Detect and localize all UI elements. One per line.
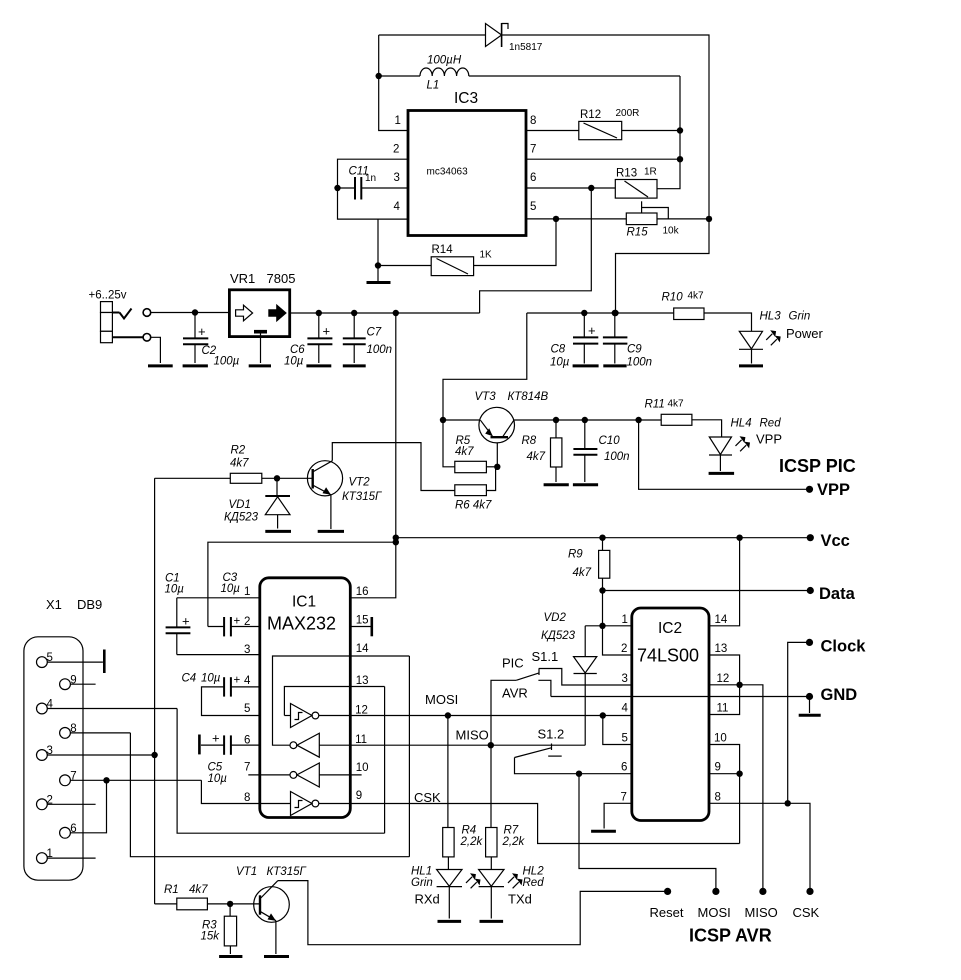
svg-text:8: 8 — [530, 115, 536, 127]
pin numbers IC2 left — [621, 614, 629, 804]
svg-text:4k7: 4k7 — [688, 291, 705, 302]
capacitor C6 10u — [284, 313, 332, 368]
svg-text:HL4: HL4 — [731, 418, 752, 430]
svg-text:+: + — [198, 324, 206, 339]
svg-text:4k7: 4k7 — [189, 884, 208, 896]
svg-text:10µ: 10µ — [284, 356, 304, 368]
node VD1 top — [274, 475, 280, 481]
label ICSP AVR — [689, 926, 772, 946]
svg-text:7805: 7805 — [267, 271, 296, 286]
wire Data line — [603, 590, 811, 592]
svg-text:CSK: CSK — [414, 790, 441, 805]
svg-text:+: + — [182, 614, 190, 629]
wire IC3 pin4 ground vertical — [377, 219, 379, 281]
svg-text:14: 14 — [715, 614, 728, 626]
resistor R8 4k7 — [522, 420, 562, 482]
svg-text:C9: C9 — [627, 344, 642, 356]
DB9 pin 7 — [60, 770, 202, 785]
connector X1 DB9 shell — [24, 597, 102, 880]
ground IC2 pin7 — [591, 830, 616, 833]
svg-text:ICSP AVR: ICSP AVR — [689, 926, 772, 946]
svg-text:C4: C4 — [182, 673, 197, 685]
wire R2 left vertical — [154, 478, 156, 904]
node Vcc vertical upper — [393, 535, 399, 541]
svg-text:16: 16 — [356, 586, 369, 598]
svg-text:R9: R9 — [568, 549, 583, 561]
node R8 top — [553, 417, 559, 423]
ground terminal GND — [799, 686, 858, 715]
wire R15 right to vertical — [657, 218, 709, 220]
node IC2 pin1 junction — [599, 623, 605, 629]
svg-text:2: 2 — [621, 643, 627, 655]
node R12 right — [677, 127, 683, 133]
node C6 top — [316, 310, 322, 316]
svg-text:C10: C10 — [599, 435, 621, 447]
svg-text:1K: 1K — [480, 250, 493, 261]
svg-text:VD2: VD2 — [544, 612, 567, 624]
svg-text:R7: R7 — [504, 825, 519, 837]
svg-text:11: 11 — [355, 734, 367, 746]
svg-text:R1: R1 — [164, 884, 179, 896]
svg-text:3: 3 — [622, 673, 628, 685]
svg-text:10: 10 — [714, 733, 727, 745]
switch S1.1 — [491, 649, 632, 745]
wire rail to C8 C9 R10 — [527, 312, 674, 314]
ground HL3 — [739, 364, 763, 367]
wire MOSI line pin12 to IC2 pin4 — [319, 715, 632, 717]
wire IC3 pin8 to R12 — [526, 130, 579, 132]
svg-text:1n: 1n — [365, 173, 376, 184]
svg-text:C6: C6 — [290, 344, 305, 356]
wire pin5 down to R14 — [474, 219, 556, 266]
ground VD1 — [265, 530, 291, 533]
resistor R6 4k7 — [455, 467, 496, 512]
svg-text:+: + — [234, 675, 241, 687]
ground R8 — [544, 483, 569, 486]
resistor R5 4k7 — [443, 420, 497, 473]
wire VT2 emitter to ground — [330, 495, 332, 529]
svg-text:10k: 10k — [663, 226, 680, 237]
svg-text:S1.2: S1.2 — [538, 727, 565, 742]
diode VD2 KD523 — [541, 612, 597, 745]
svg-text:10µ: 10µ — [221, 583, 241, 595]
wire R12 to right vertical — [622, 130, 680, 132]
svg-text:9: 9 — [715, 762, 721, 774]
wire VT1 collector to Reset — [278, 881, 668, 945]
DB9 pin 8 — [60, 723, 131, 738]
wire AVR to GND line — [551, 696, 810, 698]
resistor R3 15k — [201, 904, 237, 954]
svg-text:4k7: 4k7 — [455, 446, 474, 458]
svg-text:9: 9 — [356, 790, 362, 802]
resistor R12 200R — [579, 108, 640, 140]
DB9 pin 1 — [37, 848, 96, 863]
svg-text:R10: R10 — [662, 292, 684, 304]
node pin6 feedback junction — [588, 185, 594, 191]
diode VD1 KD523 — [224, 478, 290, 528]
resistor R13 1R — [615, 167, 657, 199]
label terminal Vcc — [821, 532, 850, 550]
node IC2 pin12 junction — [736, 682, 742, 688]
svg-text:4: 4 — [394, 201, 401, 213]
svg-text:CSK: CSK — [793, 905, 820, 920]
svg-text:11: 11 — [717, 703, 729, 715]
wire 5V rail right segment — [443, 313, 527, 420]
svg-text:R12: R12 — [580, 109, 601, 121]
wire C3 bracket to Vcc node — [208, 542, 396, 626]
node R9 bottom Data — [599, 587, 605, 593]
svg-text:14: 14 — [356, 643, 369, 655]
wire R9 to IC2 pin1 pin2 — [603, 591, 632, 656]
wire IC3 pin7 to right vertical — [526, 158, 680, 160]
svg-text:R6 4k7: R6 4k7 — [455, 500, 492, 512]
pin numbers IC2 right — [714, 614, 729, 804]
svg-text:13: 13 — [715, 643, 728, 655]
svg-text:1: 1 — [244, 586, 250, 598]
DB9 pin 9 — [60, 674, 96, 689]
svg-text:MOSI: MOSI — [698, 905, 731, 920]
wire VT3 collector line — [514, 419, 661, 421]
svg-text:MAX232: MAX232 — [267, 614, 336, 634]
node IC2 pin6 junction — [576, 771, 582, 777]
svg-text:13: 13 — [356, 675, 369, 687]
svg-text:ICSP PIC: ICSP PIC — [779, 456, 856, 476]
capacitor C8 10u — [550, 313, 598, 369]
capacitor C11 1n — [338, 166, 409, 200]
svg-text:2: 2 — [393, 144, 399, 156]
ground C2 — [183, 364, 208, 367]
resistor R7 2,2k — [486, 745, 526, 869]
wire IC2 pin10 tie to pin9 — [709, 745, 740, 774]
svg-text:C5: C5 — [208, 762, 223, 774]
svg-text:R15: R15 — [627, 227, 649, 239]
resistor R9 4k7 — [568, 538, 610, 591]
trimmer R15 10k — [626, 201, 679, 238]
gate U1C inverter 10-7 — [248, 763, 361, 787]
svg-text:1R: 1R — [644, 167, 657, 178]
svg-text:12: 12 — [717, 673, 730, 685]
node MOSI riser R4 — [445, 712, 451, 718]
svg-text:Red: Red — [760, 418, 782, 430]
svg-text:VR1: VR1 — [230, 271, 255, 286]
label terminal VPP — [817, 481, 850, 499]
svg-text:IC2: IC2 — [658, 620, 682, 637]
svg-text:AVR: AVR — [502, 686, 528, 701]
capacitor C3 10u — [208, 572, 260, 637]
node R9 top — [599, 535, 605, 541]
svg-text:+: + — [234, 616, 241, 628]
svg-text:6: 6 — [530, 172, 536, 184]
svg-text:HL2: HL2 — [523, 866, 545, 878]
svg-text:6: 6 — [621, 762, 627, 774]
wire IC3 pin6 to R13 — [526, 187, 615, 189]
label terminal Clock — [821, 638, 867, 656]
node terminal Reset — [664, 888, 671, 895]
ground VR1 — [249, 364, 271, 367]
wire pin13 riser — [384, 687, 386, 834]
svg-text:74LS00: 74LS00 — [637, 646, 699, 666]
svg-text:7: 7 — [244, 762, 250, 774]
svg-text:4k7: 4k7 — [573, 567, 592, 579]
svg-text:Vcc: Vcc — [821, 532, 850, 550]
wire IC2 pin7 to ground — [604, 803, 632, 828]
svg-text:MISO: MISO — [456, 728, 489, 743]
svg-text:4k7: 4k7 — [527, 451, 546, 463]
wire IC2 pin14 to Vcc — [709, 538, 740, 626]
svg-text:R8: R8 — [522, 435, 537, 447]
node terminal Data — [807, 587, 814, 594]
svg-text:Grin: Grin — [411, 877, 433, 889]
svg-text:2,2k: 2,2k — [460, 836, 484, 848]
wire IC2 pin8 to CSK terminal — [709, 803, 810, 891]
wire Vcc vertical down to MAX232 pin16 — [350, 313, 396, 598]
IC3 mc34063 — [393, 90, 536, 236]
svg-text:Data: Data — [819, 585, 856, 603]
svg-text:IC1: IC1 — [292, 594, 316, 611]
wire DB9 pin4 route to pin13 riser — [177, 709, 385, 834]
DB9 pin 4 — [37, 699, 178, 714]
wire IC2 pin1 to VD2 — [585, 625, 632, 627]
node R11 left VPP branch — [635, 417, 641, 423]
svg-text:VT1: VT1 — [236, 866, 257, 878]
wire IC2 pin13 pin11 tie to pin12 — [709, 655, 740, 715]
connector X power jack — [101, 302, 151, 343]
node terminal MISO AVR — [759, 888, 766, 895]
wire Clock — [788, 642, 810, 803]
svg-text:5: 5 — [530, 201, 536, 213]
capacitor C4 10u — [182, 673, 260, 716]
svg-text:1: 1 — [622, 614, 628, 626]
transistor VT3 KT814B — [475, 391, 549, 467]
resistor R11 4k7 — [645, 399, 692, 426]
resistor R4 2,2k — [443, 716, 484, 870]
svg-text:КТ814B: КТ814B — [508, 391, 549, 403]
wire right vertical from L1 down to R13 — [657, 76, 680, 189]
svg-text:C8: C8 — [551, 344, 566, 356]
wire DB9 pin8 route to pin14 riser — [130, 733, 409, 857]
wire IC1 pin15 stub — [350, 617, 372, 636]
svg-text:7: 7 — [530, 144, 536, 156]
svg-text:Clock: Clock — [821, 638, 867, 656]
label MISO — [456, 728, 489, 743]
svg-text:HL3: HL3 — [760, 311, 782, 323]
svg-text:R14: R14 — [432, 244, 454, 256]
svg-text:VD1: VD1 — [229, 499, 251, 511]
svg-text:10: 10 — [356, 762, 369, 774]
svg-text:12: 12 — [355, 704, 368, 716]
node Vcc pin14 — [736, 535, 742, 541]
svg-text:5: 5 — [244, 703, 250, 715]
node VT3 base — [494, 464, 500, 470]
wire feedback to 5V rail — [480, 188, 592, 313]
svg-text:+: + — [323, 324, 331, 339]
capacitor C5 10u — [199, 731, 259, 785]
node C7 top — [351, 310, 357, 316]
label ICSP PIC — [779, 456, 856, 476]
wire 5V rail left — [290, 312, 480, 314]
node C9 top — [612, 310, 618, 316]
wire VT2 collector to R6 — [332, 443, 455, 491]
svg-text:MISO: MISO — [745, 905, 778, 920]
svg-text:4: 4 — [622, 703, 629, 715]
wire IC2 pin6 route to MOSI terminal — [579, 774, 716, 892]
LED HL3 green power — [739, 311, 824, 364]
svg-text:GND: GND — [821, 686, 858, 704]
inductor L1 100uH — [379, 55, 680, 92]
switch S1.2 — [515, 727, 632, 774]
DB9 pin 3 — [37, 745, 155, 760]
wire R10 to HL3 — [704, 313, 752, 331]
svg-text:Reset: Reset — [650, 905, 684, 920]
wire top rail to diode — [379, 34, 486, 36]
wire R2 to VT2 base — [262, 477, 312, 479]
wire jack plus to VR1 — [151, 312, 230, 314]
wire DB9 pin7 to IC1 pin8 — [201, 780, 259, 803]
svg-text:100n: 100n — [367, 344, 393, 356]
node MOSI to IC2 pin4 — [600, 712, 606, 718]
ground C10 — [573, 483, 598, 486]
capacitor C7 100n — [343, 313, 392, 363]
resistor R1 4k7 — [155, 884, 231, 910]
wire pin14 riser — [408, 656, 410, 857]
gate U1A hysteresis buffer 13-12 — [284, 687, 384, 728]
svg-text:3: 3 — [394, 172, 400, 184]
wire diode to right vertical — [502, 35, 709, 313]
svg-text:4k7: 4k7 — [230, 458, 249, 470]
svg-text:R13: R13 — [616, 168, 637, 180]
node C8 top — [581, 310, 587, 316]
node terminal VPP — [806, 486, 813, 493]
svg-text:Red: Red — [523, 877, 545, 889]
svg-text:L1: L1 — [427, 80, 440, 92]
pin numbers IC1 right — [355, 586, 369, 802]
svg-text:mc34063: mc34063 — [427, 167, 469, 178]
LED HL1 green RXd — [411, 866, 481, 919]
ground C6 — [306, 364, 331, 367]
node VT3 emitter — [440, 417, 446, 423]
node terminal GND — [806, 693, 813, 700]
svg-text:Grin: Grin — [789, 311, 811, 323]
node Vcc vertical lower — [393, 539, 399, 545]
wire IC2 pin5 tie — [603, 716, 632, 745]
svg-text:100n: 100n — [604, 451, 630, 463]
svg-text:MOSI: MOSI — [425, 692, 458, 707]
capacitor C1 10u — [165, 573, 191, 655]
transistor VT2 KT315G — [307, 461, 382, 503]
svg-text:X1: X1 — [46, 597, 62, 612]
svg-text:IC3: IC3 — [454, 90, 478, 107]
svg-text:10µ: 10µ — [165, 584, 185, 596]
svg-text:4k7: 4k7 — [668, 399, 685, 410]
svg-text:10µ: 10µ — [208, 773, 228, 785]
gate U1D hysteresis buffer 8-9 — [260, 792, 319, 816]
transistor VT1 KT315G — [236, 866, 306, 923]
svg-text:1: 1 — [395, 115, 401, 127]
labels ICSP AVR terminals — [650, 905, 820, 920]
ground C9 — [603, 364, 626, 367]
capacitor C2 100u — [183, 313, 240, 368]
svg-text:100µH: 100µH — [427, 55, 462, 67]
wire jack minus to ground — [151, 337, 161, 363]
node R1 R3 VT1 base — [227, 901, 233, 907]
node pin5 junction — [553, 216, 559, 222]
LED HL2 red TXd — [479, 866, 545, 919]
svg-text:КТ315Г: КТ315Г — [342, 491, 382, 503]
wire VPP branch — [639, 420, 810, 489]
wire IC1 pin1 — [177, 597, 260, 599]
svg-text:S1.1: S1.1 — [532, 649, 559, 664]
node terminal Vcc — [807, 534, 814, 541]
ground jack — [148, 364, 173, 367]
svg-text:200R: 200R — [616, 108, 640, 119]
svg-text:+: + — [212, 731, 220, 746]
node C11 left — [334, 185, 340, 191]
DB9 pin 5 — [37, 650, 105, 674]
svg-text:7: 7 — [621, 791, 627, 803]
DB9 pin 2 — [37, 794, 96, 809]
ground C7 — [343, 364, 366, 367]
resistor R2 4k7 — [155, 445, 262, 484]
svg-text:HL1: HL1 — [411, 866, 432, 878]
ground HL1 — [438, 920, 462, 923]
svg-text:КТ315Г: КТ315Г — [267, 866, 307, 878]
wire VT1 base — [230, 903, 259, 905]
svg-text:DB9: DB9 — [77, 597, 102, 612]
ground IC3 — [367, 281, 391, 284]
node pin7 right — [677, 156, 683, 162]
DB9 pin 6 — [60, 780, 107, 838]
node rail to Vcc vertical — [393, 310, 399, 316]
wire IC3 pin5 row — [526, 218, 626, 220]
svg-text:КД523: КД523 — [541, 630, 576, 642]
svg-text:2,2k: 2,2k — [502, 836, 526, 848]
svg-text:КД523: КД523 — [224, 512, 259, 524]
svg-text:VT3: VT3 — [475, 391, 497, 403]
resistor R14 1K — [431, 244, 492, 276]
svg-text:R2: R2 — [231, 445, 246, 457]
svg-text:TXd: TXd — [508, 891, 532, 906]
wire emitter node to VT3 — [443, 419, 481, 421]
svg-text:C7: C7 — [367, 327, 382, 339]
regulator VR1 7805 — [229, 271, 295, 363]
wire IC2 pin12 to MISO terminal — [709, 685, 763, 892]
wire IC2 pin9 to CSK dip — [739, 774, 741, 844]
svg-text:100n: 100n — [627, 357, 653, 369]
node C2 top — [192, 309, 198, 315]
label CSK — [414, 790, 441, 805]
resistor R10 4k7 — [662, 291, 705, 320]
node rail at x615 — [612, 310, 618, 316]
svg-text:15: 15 — [356, 615, 369, 627]
svg-text:+6..25v: +6..25v — [89, 290, 127, 302]
svg-text:8: 8 — [715, 791, 721, 803]
wire IC3 pin4 row — [338, 159, 409, 219]
capacitor C9 100n — [603, 313, 652, 369]
LED HL4 red VPP — [709, 418, 782, 472]
svg-text:1n5817: 1n5817 — [509, 42, 543, 53]
ground HL4 — [709, 472, 735, 475]
node R15 right vertical — [706, 216, 712, 222]
wire Vcc line — [396, 537, 811, 539]
wire MISO line pin11 — [319, 744, 585, 746]
svg-text:VPP: VPP — [756, 432, 782, 447]
wire R11 to HL4 — [692, 420, 722, 437]
diode VD 1n5817 — [486, 23, 543, 53]
svg-text:8: 8 — [244, 792, 250, 804]
ground C8 — [573, 364, 599, 367]
svg-text:100µ: 100µ — [214, 356, 240, 368]
ground VT1 — [264, 955, 289, 958]
